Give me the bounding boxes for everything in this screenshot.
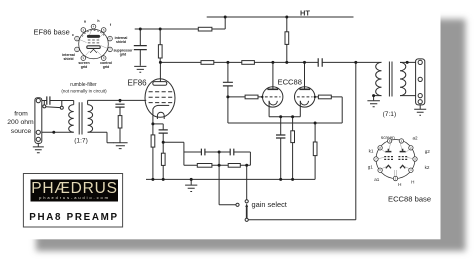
svg-text:source: source — [11, 128, 32, 135]
svg-text:shield: shield — [116, 40, 126, 44]
svg-text:EF86 base: EF86 base — [34, 28, 70, 37]
svg-text:gain select: gain select — [252, 200, 287, 209]
svg-text:c: c — [72, 33, 74, 37]
svg-text:screen: screen — [381, 135, 395, 140]
svg-text:EF86: EF86 — [128, 79, 148, 88]
svg-text:PHA8 PREAMP: PHA8 PREAMP — [29, 212, 118, 223]
svg-text:HT: HT — [300, 9, 310, 18]
svg-text:a: a — [84, 20, 86, 24]
svg-text:a2: a2 — [412, 136, 418, 141]
svg-text:(7:1): (7:1) — [383, 111, 397, 118]
svg-text:g1: g1 — [368, 165, 374, 170]
svg-text:rumble-filter: rumble-filter — [70, 82, 97, 88]
svg-text:grid: grid — [81, 65, 88, 69]
svg-text:g2: g2 — [425, 149, 431, 154]
svg-text:H: H — [398, 182, 401, 187]
svg-text:H: H — [411, 180, 414, 185]
svg-text:shield: shield — [63, 57, 73, 61]
svg-text:(not normally in circuit): (not normally in circuit) — [61, 89, 107, 94]
svg-text:phaedrus-audio.com: phaedrus-audio.com — [39, 195, 110, 200]
svg-text:grid: grid — [120, 53, 127, 57]
svg-text:ECC88 base: ECC88 base — [388, 195, 431, 204]
svg-text:ECC88: ECC88 — [278, 78, 302, 87]
svg-text:(1:7): (1:7) — [74, 138, 88, 145]
svg-text:k2: k2 — [425, 165, 430, 170]
svg-text:200 ohm: 200 ohm — [7, 119, 34, 126]
svg-text:from: from — [14, 111, 28, 118]
svg-text:h: h — [97, 19, 99, 23]
svg-text:grid: grid — [103, 65, 110, 69]
svg-text:a1: a1 — [374, 177, 380, 182]
svg-text:k1: k1 — [369, 149, 374, 154]
